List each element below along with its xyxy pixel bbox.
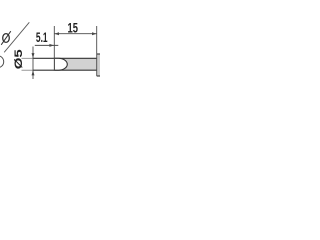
dim 15: line <box>54 33 96 35</box>
dim 15: right arrow <box>92 32 97 35</box>
dim diameter-5: vertical line with outside arrows <box>32 47 34 80</box>
background <box>0 0 100 100</box>
extension line at shoulder (x=54.3) <box>53 26 55 70</box>
front view circle (partial, at left edge) <box>0 56 4 68</box>
cylinder body (gray) <box>54 58 96 70</box>
collar (larger barrel at right) <box>97 54 101 76</box>
dim diameter-5: extension stubs <box>22 57 34 59</box>
tip flat (white rectangle) <box>33 58 54 70</box>
dim 15: left arrow <box>54 32 59 35</box>
dim 5.1: line <box>35 44 59 46</box>
extension line at collar step (x=96.7) <box>96 26 98 76</box>
svg-text:5.1: 5.1 <box>36 30 48 46</box>
leader line to front view <box>4 22 29 52</box>
bevel face (white D shape) <box>54 58 67 70</box>
dim 5.1: arrow <box>49 44 54 47</box>
diameter symbol label <box>1 31 11 45</box>
svg-text:Ø5: Ø5 <box>13 49 25 69</box>
svg-text:15: 15 <box>68 20 78 36</box>
